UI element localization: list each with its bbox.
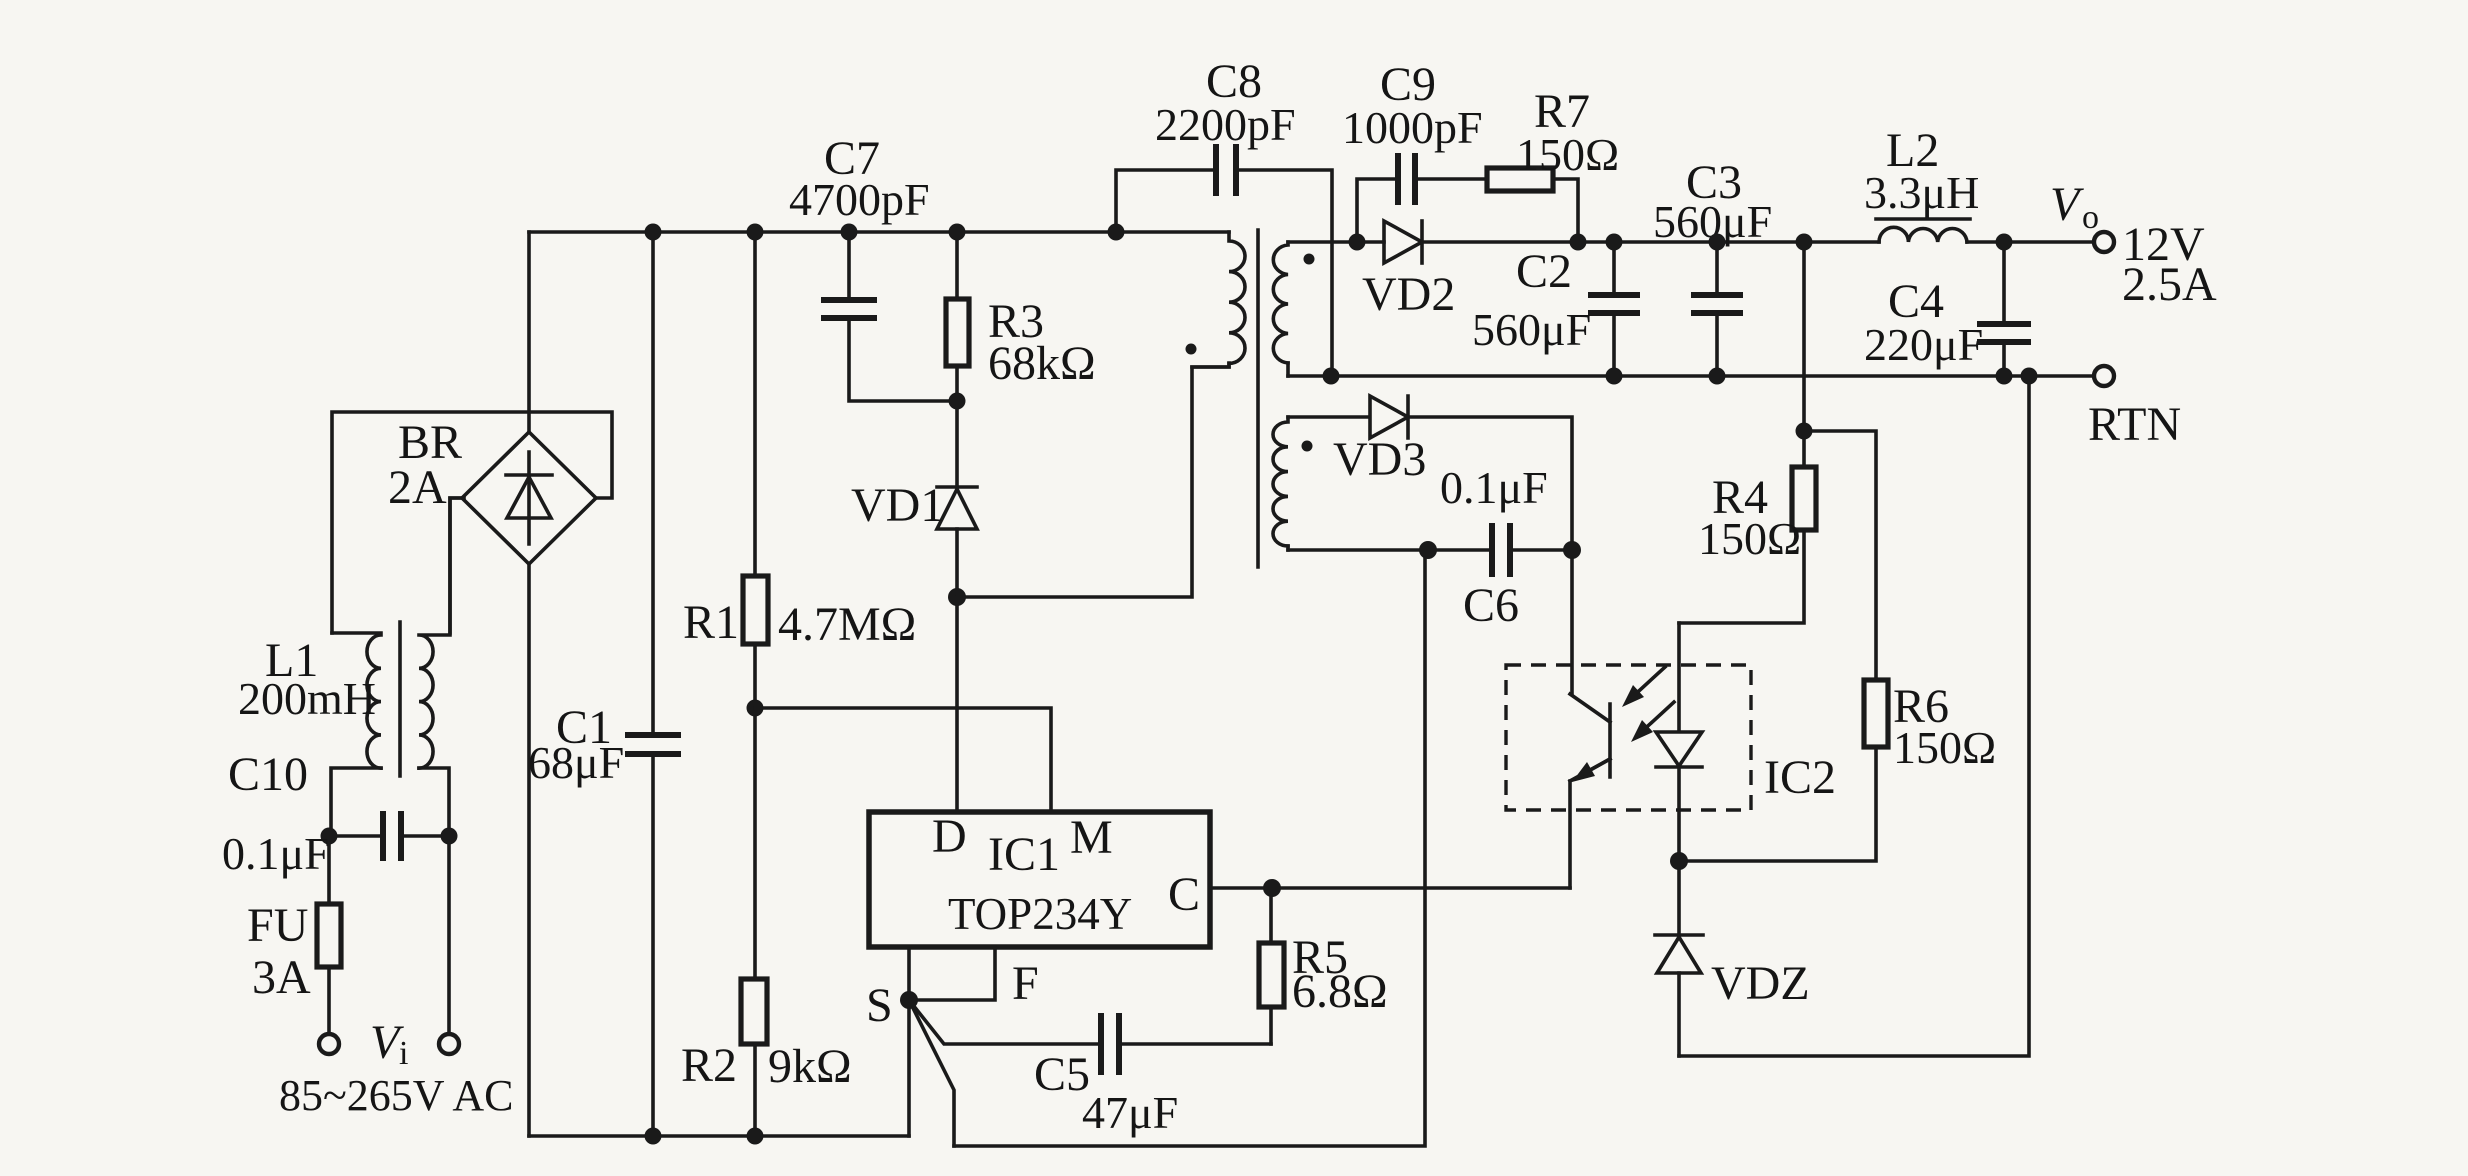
- diode VD1 (clamp): [851, 479, 977, 597]
- bridge rectifier BR 2A: [388, 416, 596, 564]
- wire: secondary bottom return rail: [1288, 374, 2104, 378]
- node: bus / C1: [645, 224, 662, 241]
- node: C6 left / aux return: [1419, 541, 1437, 559]
- svg-text:C2: C2: [1516, 245, 1572, 298]
- terminal: RTN return: [2094, 366, 2114, 386]
- svg-text:85~265V AC: 85~265V AC: [279, 1071, 513, 1120]
- wire: D node to primary winding bottom: [957, 367, 1229, 597]
- node: bus / R3: [949, 224, 966, 241]
- svg-text:M: M: [1070, 811, 1113, 864]
- node: R7 / output rail: [1570, 234, 1587, 251]
- capacitor C1 68uF: [528, 232, 681, 1136]
- wire: right AC input lead: [447, 836, 451, 1033]
- svg-text:47μF: 47μF: [1082, 1087, 1178, 1138]
- capacitor C9 1000pF: [1342, 58, 1487, 242]
- node: output rail / C3: [1709, 234, 1726, 251]
- svg-text:IC1: IC1: [988, 828, 1060, 881]
- svg-text:3.3μH: 3.3μH: [1864, 167, 1979, 218]
- node: bus / C7: [841, 224, 858, 241]
- svg-text:0.1μF: 0.1μF: [1440, 462, 1548, 513]
- node: VD2 anode / C9 branch: [1349, 234, 1366, 251]
- node S: source node of IC1: [900, 991, 918, 1009]
- node: output rail / C4: [1996, 234, 2013, 251]
- fuse FU 3A: [247, 836, 341, 1033]
- wire: BR output up to bus: [527, 232, 531, 432]
- svg-text:560μF: 560μF: [1472, 304, 1591, 355]
- node: bus / C8 branch: [1108, 224, 1125, 241]
- wire: C6 right node down to optocoupler collector: [1570, 550, 1574, 694]
- svg-text:3A: 3A: [252, 951, 311, 1004]
- svg-text:R2: R2: [681, 1039, 737, 1092]
- svg-text:TOP234Y: TOP234Y: [948, 889, 1132, 939]
- pin F wire of IC1: [909, 947, 995, 1000]
- bridge rectifier BR frame wires: [332, 412, 612, 633]
- node: return rail / C4: [1996, 368, 2013, 385]
- terminal: Vo output: [2094, 232, 2114, 252]
- node: output rail / C2: [1606, 234, 1623, 251]
- svg-text:150Ω: 150Ω: [1893, 722, 1996, 773]
- svg-text:C6: C6: [1463, 579, 1519, 632]
- svg-text:200mH: 200mH: [238, 673, 376, 724]
- node: IC1 C pin / R5: [1263, 879, 1281, 897]
- inductor L2 3.3uH: [1864, 124, 1979, 242]
- resistor R1 4.7Mohm: [683, 232, 916, 708]
- svg-text:D: D: [932, 810, 967, 863]
- svg-text:220μF: 220μF: [1864, 319, 1983, 370]
- wire: D node down to IC1 drain pin: [955, 597, 959, 812]
- svg-text:o: o: [2082, 199, 2099, 236]
- resistor R6 150ohm: [1679, 431, 1996, 861]
- capacitor C8 2200pF (Y-cap): [1116, 55, 1332, 376]
- node: VD1 / primary bottom / IC1 D pin: [948, 588, 966, 606]
- transformer T1 secondary winding: [1273, 242, 1288, 376]
- node: primary phasing dot: [1186, 344, 1197, 355]
- optocoupler light arrows: [1622, 667, 1674, 742]
- svg-text:68kΩ: 68kΩ: [988, 337, 1096, 390]
- zener diode VDZ: [1655, 861, 1810, 1056]
- svg-text:S: S: [866, 979, 893, 1032]
- transformer T1 core: [1256, 230, 1260, 567]
- wire: top DC bus (BR+ to transformer primary): [529, 230, 1229, 234]
- svg-text:F: F: [1012, 957, 1039, 1010]
- node: return rail / C3: [1709, 368, 1726, 385]
- resistor R2 9kohm: [681, 708, 852, 1136]
- svg-text:VD2: VD2: [1362, 268, 1455, 321]
- node: bus / R1: [747, 224, 764, 241]
- node: C7 / R3 / VD1 junction: [949, 393, 966, 410]
- node: C6 right / VD3 / opto collector: [1563, 541, 1581, 559]
- capacitor C7 4700pF: [789, 132, 957, 401]
- wire: VD2 cathode to output rail: [1422, 240, 2094, 244]
- node: return rail / C2: [1606, 368, 1623, 385]
- svg-text:4.7MΩ: 4.7MΩ: [778, 598, 916, 651]
- capacitor C10 0.1uF: [222, 748, 458, 879]
- capacitor C4 220uF: [1864, 242, 2031, 376]
- wire: secondary top to VD2: [1288, 240, 1384, 244]
- wire: BR bottom vertex down to primary ground rail: [527, 564, 531, 1136]
- svg-text:150Ω: 150Ω: [1516, 129, 1619, 180]
- svg-text:0.1μF: 0.1μF: [222, 828, 330, 879]
- pin S wire of IC1 (source): [907, 947, 911, 1136]
- svg-text:VD1: VD1: [851, 479, 944, 532]
- resistor R5 6.8ohm: [1259, 888, 1388, 1044]
- terminal: AC input left: [319, 1034, 339, 1054]
- node: auxiliary phasing dot: [1302, 441, 1313, 452]
- wire: primary ground rail (left): [529, 1134, 909, 1138]
- capacitor C6 0.1uF: [1288, 462, 1572, 632]
- node: ground rail / C1: [645, 1128, 662, 1145]
- wire: S node diagonal to return rail: [909, 1000, 954, 1146]
- optocoupler phototransistor of IC2: [1570, 694, 1610, 888]
- svg-text:C10: C10: [228, 748, 308, 801]
- terminal: AC input right: [439, 1034, 459, 1054]
- capacitor C2 560uF: [1472, 242, 1640, 376]
- node: return rail / C8: [1323, 368, 1340, 385]
- capacitor C5 47uF: [1034, 1013, 1271, 1138]
- node: return rail / RTN column: [2021, 368, 2038, 385]
- wire: RTN column down and across to VDZ bottom: [1679, 376, 2029, 1056]
- svg-text:IC2: IC2: [1764, 751, 1836, 804]
- node: ground rail / R2: [747, 1128, 764, 1145]
- svg-text:VD3: VD3: [1333, 433, 1426, 486]
- optocoupler IC2 dashed box: [1506, 665, 1836, 810]
- diode VD2 (output rectifier): [1362, 221, 1455, 321]
- svg-text:6.8Ω: 6.8Ω: [1292, 965, 1388, 1018]
- svg-text:2A: 2A: [388, 461, 447, 514]
- inductor L1 200mH (common-mode choke): [238, 498, 462, 836]
- capacitor C3 560uF: [1653, 156, 1772, 376]
- svg-text:4700pF: 4700pF: [789, 174, 930, 225]
- svg-text:i: i: [399, 1035, 408, 1072]
- node: secondary phasing dot: [1304, 254, 1315, 265]
- svg-text:150Ω: 150Ω: [1698, 513, 1801, 564]
- resistor R4 150ohm: [1679, 431, 1816, 623]
- svg-text:VDZ: VDZ: [1711, 957, 1810, 1010]
- transformer T1 auxiliary winding: [1273, 417, 1288, 550]
- svg-text:9kΩ: 9kΩ: [768, 1040, 852, 1093]
- wire: IC1 C pin to optocoupler emitter: [1210, 886, 1570, 890]
- IC U1: IC1 TOP234Y: [869, 810, 1210, 947]
- wire: source return rail (right, to C6 net): [954, 550, 1425, 1146]
- resistor R7 150ohm (snubber): [1487, 85, 1619, 242]
- diode VD3 (aux rectifier): [1288, 396, 1572, 550]
- optocoupler LED of IC2: [1656, 623, 1702, 861]
- wire: S node diagonal to C5: [909, 1000, 1101, 1044]
- svg-text:R1: R1: [683, 596, 739, 649]
- node: output rail / R4 branch: [1796, 234, 1813, 251]
- node: R4 / R6 divider tap: [1796, 423, 1813, 440]
- transformer T1 primary winding: [1192, 232, 1245, 367]
- svg-text:2200pF: 2200pF: [1155, 99, 1296, 150]
- svg-text:68μF: 68μF: [528, 737, 624, 788]
- node: LED cathode / R6 / VDZ junction: [1670, 852, 1688, 870]
- svg-text:1000pF: 1000pF: [1342, 102, 1483, 153]
- svg-text:V: V: [2050, 178, 2084, 231]
- wire: opto emitter segment: [1570, 759, 1610, 781]
- resistor R3 68kohm: [946, 232, 1096, 487]
- svg-text:RTN: RTN: [2088, 398, 2181, 451]
- wire: R4 sense branch from output rail: [1802, 242, 1806, 431]
- svg-text:2.5A: 2.5A: [2122, 258, 2217, 311]
- svg-text:C: C: [1168, 868, 1200, 921]
- wire: R1/R2 node to IC1 M pin: [755, 708, 1051, 812]
- node: R1/R2/M-pin junction: [747, 700, 764, 717]
- svg-text:FU: FU: [247, 899, 308, 952]
